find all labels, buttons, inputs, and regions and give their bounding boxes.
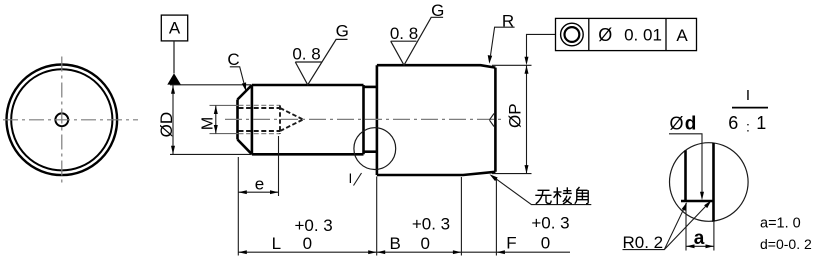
svg-text:d=0-0. 2: d=0-0. 2 [760,236,812,252]
svg-text:F: F [506,234,516,253]
svg-text:ØP: ØP [506,103,525,128]
svg-text:L: L [272,234,281,253]
svg-text:G: G [431,1,444,20]
svg-text:C: C [227,50,239,69]
svg-text:a=1. 0: a=1. 0 [760,215,801,231]
svg-text:+0. 3: +0. 3 [531,214,569,233]
svg-text:0. 01: 0. 01 [624,26,662,45]
svg-text:G: G [336,22,349,41]
svg-text:I: I [746,87,750,104]
svg-text:1: 1 [756,113,766,133]
svg-text::: : [746,119,750,135]
svg-text:a: a [694,228,705,249]
svg-text:0. 8: 0. 8 [390,24,418,43]
svg-text:Ø: Ø [598,25,612,45]
svg-text:A: A [169,19,181,38]
svg-text:6: 6 [728,113,738,133]
svg-text:M: M [200,117,217,130]
svg-text:+0. 3: +0. 3 [412,215,450,234]
svg-text:0. 8: 0. 8 [292,44,320,63]
svg-text:0: 0 [303,234,312,253]
svg-text:0: 0 [420,234,429,253]
svg-text:Ø: Ø [669,113,683,133]
svg-text:I: I [349,171,353,186]
svg-text:B: B [390,234,401,253]
svg-text:d: d [685,113,697,134]
svg-text:e: e [255,175,264,194]
svg-text:0: 0 [541,234,550,253]
svg-text:+0. 3: +0. 3 [294,216,332,235]
svg-text:ØD: ØD [157,112,176,138]
svg-text:A: A [676,26,688,45]
